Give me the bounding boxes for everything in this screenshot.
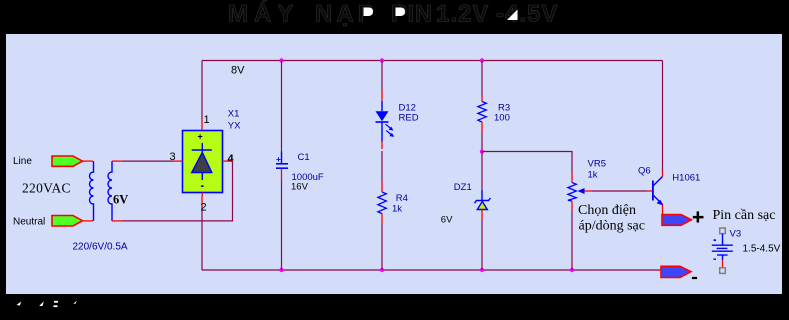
svg-text:2: 2 bbox=[201, 202, 207, 214]
connector: output plus bbox=[662, 215, 692, 226]
svg-text:8V: 8V bbox=[231, 65, 245, 77]
svg-text:1: 1 bbox=[204, 114, 210, 126]
svg-text:6V: 6V bbox=[113, 193, 128, 207]
connector: Neutral input bbox=[52, 216, 83, 227]
transformer primary winding bbox=[90, 161, 94, 221]
svg-text:DZ1: DZ1 bbox=[454, 182, 472, 193]
node: junction dot top rail at C1 bbox=[279, 58, 283, 62]
svg-text:YX: YX bbox=[228, 120, 241, 131]
svg-text:Chọn điện: Chọn điện bbox=[578, 203, 636, 218]
svg-text:Pin cần sạc: Pin cần sạc bbox=[713, 208, 776, 223]
wire: VR5 wiper to Q6 base bbox=[592, 190, 652, 192]
label minus sign bbox=[692, 277, 697, 279]
wire: Q6 emitter to + connector bbox=[662, 205, 664, 216]
svg-text:Line: Line bbox=[13, 156, 32, 167]
svg-text:Q6: Q6 bbox=[638, 166, 651, 177]
battery V3 bbox=[712, 228, 733, 273]
svg-text:RED: RED bbox=[399, 112, 419, 123]
svg-text:Neutral: Neutral bbox=[13, 216, 45, 227]
svg-text:16V: 16V bbox=[291, 181, 309, 192]
transformer secondary winding bbox=[108, 161, 112, 221]
svg-text:220/6V/0.5A: 220/6V/0.5A bbox=[73, 241, 128, 252]
schematic sheet bbox=[6, 34, 782, 294]
svg-text:R4: R4 bbox=[396, 193, 408, 204]
svg-text:X1: X1 bbox=[228, 109, 240, 120]
connector: output minus bbox=[661, 266, 691, 277]
node: junction dot bottom rail at DZ1 bbox=[480, 268, 484, 272]
svg-text:H1061: H1061 bbox=[672, 172, 700, 183]
wire: Line connector to primary bbox=[83, 160, 94, 162]
LED D12 bbox=[376, 61, 395, 182]
wire: top 8V rail bbox=[202, 60, 663, 62]
svg-text:220VAC: 220VAC bbox=[22, 181, 71, 196]
svg-text:MÁY: MÁY bbox=[228, 0, 299, 28]
svg-text:+: + bbox=[198, 132, 203, 142]
wire: negative bottom rail bbox=[202, 269, 661, 271]
node: junction dot R3/DZ1/VR5 bbox=[480, 149, 484, 153]
label plus sign bbox=[693, 211, 704, 222]
node: junction dot bottom rail at VR5 bbox=[570, 268, 574, 272]
bridge rectifier X1 bbox=[183, 131, 223, 197]
wire: bridge pin1 to rail bbox=[201, 61, 203, 131]
zener diode DZ1 bbox=[475, 152, 491, 271]
wire: Neutral connector to primary bbox=[83, 220, 94, 222]
svg-text:1.5-4.5V: 1.5-4.5V bbox=[743, 243, 781, 254]
svg-text:1k: 1k bbox=[588, 169, 598, 180]
resistor R4 bbox=[378, 181, 386, 270]
transistor Q6 bbox=[653, 177, 664, 206]
wire: node to VR5 top bbox=[482, 152, 572, 183]
connector: Line input bbox=[52, 156, 83, 166]
wire: secondary top to bridge pin3 bbox=[112, 160, 183, 162]
potentiometer VR5 bbox=[568, 183, 592, 271]
wire: Q6 collector to rail bbox=[662, 61, 664, 177]
svg-text:-: - bbox=[496, 1, 504, 28]
svg-text:C1: C1 bbox=[298, 152, 310, 163]
node: junction dot bottom rail at R4 bbox=[380, 268, 384, 272]
svg-text:6V: 6V bbox=[441, 214, 453, 225]
svg-text:1.2V: 1.2V bbox=[436, 1, 489, 28]
svg-text:VR5: VR5 bbox=[588, 158, 606, 169]
svg-text:+: + bbox=[276, 154, 281, 164]
svg-text:4: 4 bbox=[228, 153, 235, 165]
node: junction dot top rail at R3 bbox=[480, 58, 484, 62]
svg-text:100: 100 bbox=[494, 112, 510, 123]
svg-text:áp/dòng sạc: áp/dòng sạc bbox=[579, 219, 645, 234]
bottom-left signature marks bbox=[17, 301, 77, 307]
capacitor C1 bbox=[276, 61, 288, 271]
resistor R3 bbox=[478, 61, 486, 152]
title MÁY NẠP PIN 1.2V - 4.5V bbox=[228, 0, 558, 28]
wire: secondary bottom to bridge pin4 bbox=[112, 161, 233, 221]
wire: bridge pin2 down to negative rail bbox=[201, 196, 203, 270]
label Chon dien ap/dong sac bbox=[578, 203, 645, 234]
node: junction dot top rail at D12 bbox=[380, 58, 384, 62]
svg-text:V3: V3 bbox=[730, 228, 742, 239]
svg-text:1k: 1k bbox=[392, 203, 402, 214]
node: junction dot bottom rail at C1 bbox=[279, 268, 283, 272]
